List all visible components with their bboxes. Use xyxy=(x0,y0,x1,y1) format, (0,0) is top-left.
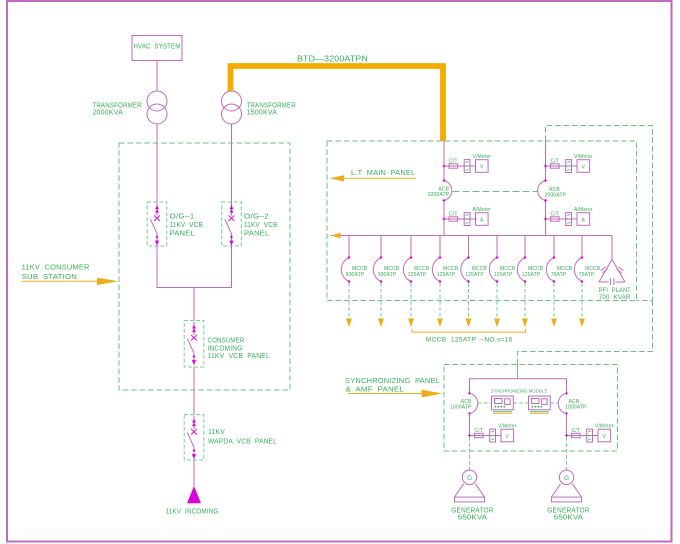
svg-text:2000KVA: 2000KVA xyxy=(92,110,123,117)
svg-text:A: A xyxy=(582,218,586,224)
svg-text:75ATP: 75ATP xyxy=(551,272,567,278)
svg-text:A: A xyxy=(480,218,484,224)
svg-text:SYNCHRONIZING PANEL: SYNCHRONIZING PANEL xyxy=(345,378,440,385)
svg-text:A/Meter: A/Meter xyxy=(574,207,593,213)
svg-text:INCOMING: INCOMING xyxy=(208,346,243,353)
svg-text:125ATP: 125ATP xyxy=(522,272,541,278)
svg-text:2000ATP: 2000ATP xyxy=(545,193,567,199)
svg-text:TRANSFORMER: TRANSFORMER xyxy=(247,103,296,110)
svg-text:700 KVAR: 700 KVAR xyxy=(599,294,631,301)
svg-text:& AMF PANEL: & AMF PANEL xyxy=(346,387,405,394)
svg-text:1500KVA: 1500KVA xyxy=(247,110,278,117)
svg-text:O/G–2: O/G–2 xyxy=(244,214,269,221)
svg-text:75ATP: 75ATP xyxy=(579,272,595,278)
svg-text:PANEL: PANEL xyxy=(244,231,269,238)
svg-text:C/T: C/T xyxy=(572,428,581,434)
svg-text:1000ATP: 1000ATP xyxy=(565,405,587,411)
svg-text:650KVA: 650KVA xyxy=(458,515,488,522)
svg-text:125ATP: 125ATP xyxy=(465,272,484,278)
svg-text:GENERATOR: GENERATOR xyxy=(547,508,590,515)
svg-text:300ATP: 300ATP xyxy=(378,272,397,278)
svg-text:WAPDA VCB PANEL: WAPDA VCB PANEL xyxy=(208,439,277,446)
svg-text:125ATP: 125ATP xyxy=(494,272,513,278)
svg-text:L.T MAIN PANEL: L.T MAIN PANEL xyxy=(351,170,415,177)
svg-text:BTD—3200ATPN: BTD—3200ATPN xyxy=(297,55,368,64)
svg-text:SYNCHRONIZING MODULE: SYNCHRONIZING MODULE xyxy=(491,389,548,394)
svg-text:V: V xyxy=(582,165,586,171)
svg-text:11KV VCB PANEL: 11KV VCB PANEL xyxy=(208,353,271,360)
svg-text:11KV: 11KV xyxy=(208,429,225,436)
svg-text:125ATP: 125ATP xyxy=(408,272,427,278)
svg-text:C/T: C/T xyxy=(449,211,458,217)
svg-text:A/Meter: A/Meter xyxy=(473,207,492,213)
svg-text:11KV INCOMING: 11KV INCOMING xyxy=(166,509,219,516)
svg-text:800ATP: 800ATP xyxy=(346,272,365,278)
svg-text:HVAC SYSTEM: HVAC SYSTEM xyxy=(134,44,181,51)
svg-text:V/Meter: V/Meter xyxy=(595,424,614,430)
svg-text:11KV CONSUMER: 11KV CONSUMER xyxy=(22,265,90,272)
svg-text:CONSUMER: CONSUMER xyxy=(208,338,245,345)
svg-text:V/Meter: V/Meter xyxy=(473,154,492,160)
svg-text:V/Meter: V/Meter xyxy=(498,424,517,430)
svg-text:V: V xyxy=(603,434,607,440)
svg-text:650KVA: 650KVA xyxy=(554,515,584,522)
svg-text:V: V xyxy=(480,165,484,171)
svg-text:MCCB 125ATP –NO,s=16: MCCB 125ATP –NO,s=16 xyxy=(426,337,513,344)
svg-text:G: G xyxy=(467,475,472,482)
svg-text:C/T: C/T xyxy=(449,158,458,164)
svg-text:C/T: C/T xyxy=(551,158,560,164)
svg-text:C/T: C/T xyxy=(551,211,560,217)
svg-text:V: V xyxy=(506,434,510,440)
svg-text:3200ATP: 3200ATP xyxy=(428,192,450,198)
svg-text:1000ATP: 1000ATP xyxy=(450,405,472,411)
svg-text:V/Meter: V/Meter xyxy=(574,154,593,160)
svg-text:11KV VCB: 11KV VCB xyxy=(170,222,204,229)
svg-text:C/T: C/T xyxy=(475,428,484,434)
svg-text:SUB STATION: SUB STATION xyxy=(22,274,78,281)
svg-text:PANEL: PANEL xyxy=(170,231,195,238)
svg-text:11KV VCB: 11KV VCB xyxy=(244,222,278,229)
svg-text:125ATP: 125ATP xyxy=(437,272,456,278)
svg-text:GENERATOR: GENERATOR xyxy=(451,508,494,515)
svg-text:G: G xyxy=(564,475,569,482)
svg-text:TRANSFORMER: TRANSFORMER xyxy=(92,103,141,110)
svg-text:PFI PLANT: PFI PLANT xyxy=(599,287,631,294)
svg-text:O/G–1: O/G–1 xyxy=(170,214,195,221)
